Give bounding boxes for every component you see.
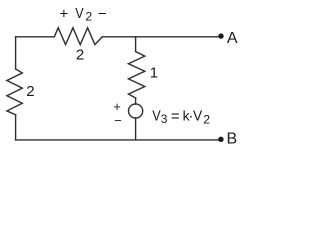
svg-text:1: 1 [150, 65, 158, 82]
terminal B node dot [218, 137, 223, 142]
wire middle branch upper [135, 37, 137, 52]
wire middle below source [135, 118, 137, 140]
svg-text:2: 2 [76, 47, 84, 64]
wire bottom horizontal to terminal B [16, 139, 220, 141]
wire top-right horizontal to terminal A [102, 36, 220, 38]
wire left vertical lower [15, 115, 17, 140]
label V3 = k*V2 equation [152, 107, 210, 126]
svg-text:V: V [152, 108, 160, 125]
svg-text:2: 2 [203, 112, 210, 126]
svg-text:V: V [75, 5, 83, 22]
svg-text:A: A [227, 30, 238, 47]
svg-text:V: V [193, 108, 202, 125]
svg-text:2: 2 [26, 83, 34, 100]
wire middle between resistor and source [135, 98, 137, 104]
svg-text:+: + [60, 5, 69, 22]
dependent source V3 circle [129, 104, 143, 118]
svg-text:=: = [171, 108, 180, 125]
svg-text:2: 2 [85, 9, 92, 23]
wire left vertical upper [15, 37, 17, 69]
resistor R3 value 1 (middle vertical) [128, 52, 144, 98]
resistor R2 value 2 (left vertical) [7, 69, 22, 115]
svg-text:3: 3 [161, 112, 168, 126]
terminal A node dot [218, 33, 223, 38]
svg-text:+: + [113, 99, 121, 114]
svg-text:−: − [98, 5, 107, 22]
wire top-left horizontal [16, 36, 55, 38]
svg-text:B: B [227, 131, 238, 148]
svg-text:−: − [114, 113, 122, 128]
resistor R1 value 2 (top horizontal) [54, 28, 102, 45]
